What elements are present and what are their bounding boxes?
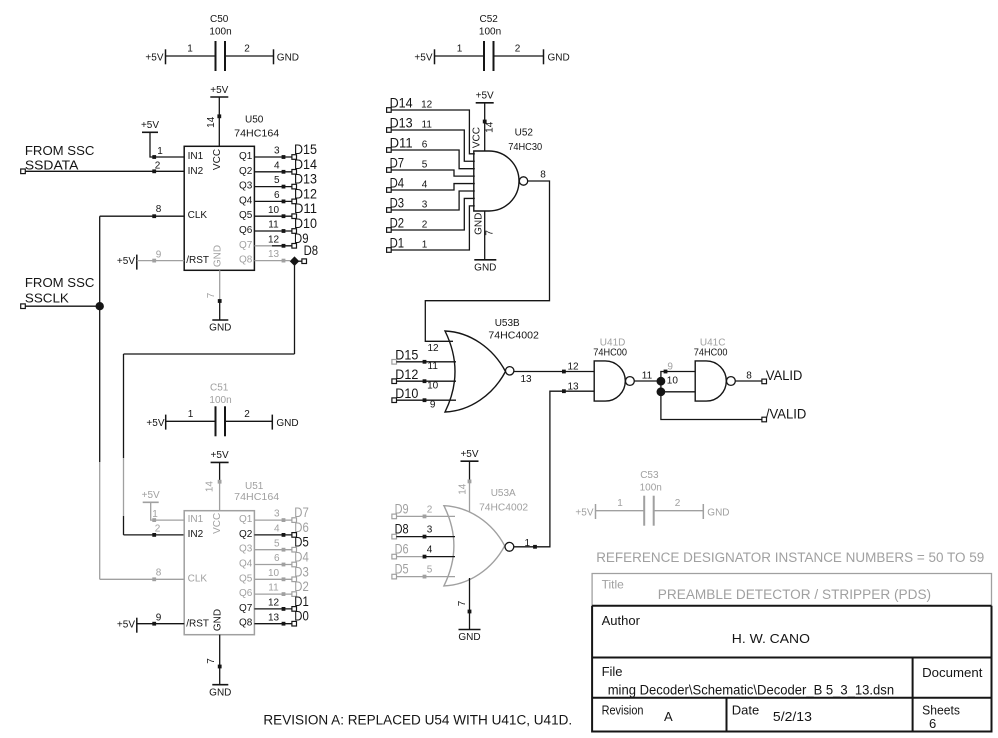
svg-text:U52: U52 bbox=[515, 127, 534, 138]
svg-text:2: 2 bbox=[155, 524, 161, 535]
svg-text:H. W. CANO: H. W. CANO bbox=[732, 631, 810, 646]
svg-text:D14: D14 bbox=[390, 96, 413, 111]
node D7 bbox=[292, 505, 309, 522]
node D6 bbox=[292, 520, 309, 537]
svg-text:2: 2 bbox=[515, 44, 521, 55]
power +5V for U51 pin 9 /RST bbox=[117, 618, 137, 633]
wire junction to U41C pin 9 bbox=[661, 361, 695, 392]
junction SSCLK rail bbox=[96, 302, 104, 310]
wire +5V to IN1 pin 1 of U50 bbox=[150, 132, 184, 159]
power +5V for U50 pin 1 bbox=[141, 120, 159, 132]
svg-text:9: 9 bbox=[156, 613, 162, 624]
svg-text:Document: Document bbox=[922, 665, 983, 680]
wire Q2 of U51 to node D6 bbox=[254, 524, 292, 537]
svg-text:FROM SSC: FROM SSC bbox=[25, 275, 95, 290]
output bubble of U41D bbox=[626, 377, 635, 386]
svg-text:74HC30: 74HC30 bbox=[508, 142, 542, 153]
svg-text:IN1: IN1 bbox=[188, 151, 204, 162]
wire D3 to pin 3 of U52 bbox=[391, 191, 475, 211]
wire Q5 of U50 to node D11 bbox=[254, 205, 292, 218]
wire D15 to pin 11 of U53B bbox=[396, 360, 456, 372]
node D14 bbox=[292, 157, 318, 174]
svg-text:4: 4 bbox=[274, 160, 280, 171]
node D11 bbox=[387, 136, 413, 153]
wire rail to CLK pin 8 of U51 bbox=[100, 567, 185, 581]
svg-text:10: 10 bbox=[667, 375, 679, 386]
svg-text:4: 4 bbox=[422, 180, 428, 191]
pin number 2 of U51 bbox=[155, 524, 161, 535]
node D3 bbox=[387, 196, 405, 213]
node D8 at U53A bbox=[392, 522, 409, 539]
node D2 bbox=[387, 216, 405, 233]
node VALID bbox=[762, 368, 803, 384]
svg-text:8: 8 bbox=[156, 567, 162, 578]
svg-text:1: 1 bbox=[157, 146, 163, 157]
junction D8 bbox=[290, 256, 300, 266]
wire Q4 of U51 to node D4 bbox=[254, 553, 292, 566]
svg-text:Q6: Q6 bbox=[239, 225, 253, 236]
svg-text:Q7: Q7 bbox=[239, 603, 253, 614]
svg-text:9: 9 bbox=[156, 249, 162, 260]
svg-text:12: 12 bbox=[427, 343, 439, 354]
svg-text:D12: D12 bbox=[294, 186, 317, 201]
svg-text:13: 13 bbox=[521, 374, 533, 385]
wire D5 to pin 5 of U53A bbox=[396, 565, 455, 579]
svg-text:74HC164: 74HC164 bbox=[234, 492, 279, 503]
svg-text:12: 12 bbox=[567, 361, 579, 372]
node D5 bbox=[292, 535, 309, 552]
svg-text:D5: D5 bbox=[294, 535, 309, 550]
svg-text:4: 4 bbox=[274, 524, 280, 535]
svg-text:D11: D11 bbox=[294, 201, 317, 216]
svg-text:100n: 100n bbox=[209, 395, 231, 406]
output bubble of U52 bbox=[519, 177, 527, 185]
svg-text:C50: C50 bbox=[210, 14, 229, 25]
node D0 bbox=[292, 609, 309, 626]
wire D12 to pin 10 of U53B bbox=[396, 379, 456, 391]
svg-text:U51: U51 bbox=[245, 481, 264, 492]
svg-text:8: 8 bbox=[156, 204, 162, 215]
node D15 at U53B bbox=[392, 348, 418, 365]
wire Q3 of U51 to node D5 bbox=[254, 538, 292, 551]
svg-text:13: 13 bbox=[268, 612, 280, 623]
wire U52 output pin 8 to U53B pin 12 bbox=[425, 170, 549, 355]
svg-text:D2: D2 bbox=[294, 579, 309, 594]
svg-text:11: 11 bbox=[268, 583, 279, 594]
svg-text:+5V: +5V bbox=[142, 490, 160, 501]
svg-text:10: 10 bbox=[268, 568, 280, 579]
svg-text:D4: D4 bbox=[390, 176, 405, 191]
svg-text:5: 5 bbox=[427, 565, 433, 576]
svg-text:1: 1 bbox=[187, 44, 193, 55]
svg-text:11: 11 bbox=[268, 220, 279, 231]
wire +5V to /RST pin 9 of U51 bbox=[137, 613, 184, 626]
node D5 at U53A bbox=[392, 562, 409, 579]
svg-text:1: 1 bbox=[457, 44, 463, 55]
svg-text:D8: D8 bbox=[304, 243, 319, 258]
svg-text:GND: GND bbox=[276, 418, 298, 429]
svg-text:5: 5 bbox=[274, 538, 280, 549]
note reference designator instance numbers bbox=[596, 550, 984, 565]
gate U41C 74HC00 body bbox=[694, 337, 728, 401]
wire SSDATA to IN2 pin 2 of U50 bbox=[25, 161, 184, 174]
svg-text:Sheets: Sheets bbox=[922, 703, 960, 718]
svg-text:14: 14 bbox=[206, 116, 217, 128]
node D9 bbox=[292, 231, 309, 248]
title block title row bbox=[602, 578, 932, 603]
power +5V for U50 pin 14 bbox=[210, 85, 228, 117]
wire VCC pin 14 of U53A bbox=[458, 480, 472, 513]
svg-text:C53: C53 bbox=[640, 470, 659, 481]
wire CLK rail vertical bbox=[99, 216, 101, 579]
svg-text:1: 1 bbox=[422, 240, 428, 251]
svg-text:U50: U50 bbox=[245, 115, 264, 126]
svg-text:D4: D4 bbox=[294, 550, 309, 565]
gate U53B 74HC4002 body bbox=[445, 318, 539, 412]
svg-text:D14: D14 bbox=[294, 157, 317, 172]
svg-text:FROM SSC: FROM SSC bbox=[25, 143, 95, 158]
svg-text:IN2: IN2 bbox=[188, 529, 204, 540]
svg-text:Title: Title bbox=[602, 578, 625, 592]
svg-text:2: 2 bbox=[427, 504, 433, 515]
svg-text:12: 12 bbox=[421, 100, 433, 111]
svg-text:74HC00: 74HC00 bbox=[694, 347, 728, 358]
svg-text:Q7: Q7 bbox=[239, 240, 253, 251]
svg-text:2: 2 bbox=[422, 220, 428, 231]
ground for U52 bbox=[474, 260, 496, 274]
output bubble of U53B bbox=[506, 367, 514, 375]
junction U41C pin 9 bbox=[657, 377, 666, 386]
svg-text:VCC: VCC bbox=[212, 513, 223, 534]
wire rail to CLK pin 8 of U50 bbox=[100, 204, 185, 218]
gate U52 74HC30 body bbox=[474, 127, 543, 211]
wire VCC pin 14 of U50 bbox=[217, 114, 221, 146]
svg-text:GND: GND bbox=[209, 323, 231, 334]
wire Q2 of U50 to node D14 bbox=[254, 160, 292, 173]
svg-text:+5V: +5V bbox=[117, 619, 135, 630]
svg-text:3: 3 bbox=[422, 200, 428, 211]
svg-text:+5V: +5V bbox=[414, 53, 432, 64]
svg-text:GND: GND bbox=[277, 53, 299, 64]
svg-text:CLK: CLK bbox=[188, 210, 208, 221]
svg-text:Author: Author bbox=[602, 613, 641, 628]
wire D8 to pin 3 of U53A bbox=[396, 525, 455, 539]
svg-text:13: 13 bbox=[567, 382, 579, 393]
svg-text:D10: D10 bbox=[395, 386, 418, 401]
power +5V for U51 pin 1 bbox=[142, 490, 160, 502]
svg-text:2: 2 bbox=[155, 161, 161, 172]
wire Q8 of U51 to node D0 bbox=[254, 612, 292, 625]
svg-text:2: 2 bbox=[244, 409, 250, 420]
svg-text:3: 3 bbox=[427, 525, 433, 536]
wire Q3 of U50 to node D13 bbox=[254, 175, 292, 188]
wire Q5 of U51 to node D3 bbox=[254, 568, 292, 581]
wire Q8 pin 13 of U50 bbox=[254, 249, 290, 262]
svg-text:D7: D7 bbox=[294, 505, 309, 520]
svg-text:PREAMBLE DETECTOR / STRIPPER (: PREAMBLE DETECTOR / STRIPPER (PDS) bbox=[658, 587, 931, 602]
note revision A bbox=[263, 713, 572, 728]
node D3 bbox=[292, 564, 309, 581]
svg-text:3: 3 bbox=[274, 146, 280, 157]
svg-text:D10: D10 bbox=[294, 216, 317, 231]
svg-text:Q4: Q4 bbox=[239, 195, 253, 206]
svg-text:12: 12 bbox=[268, 598, 280, 609]
node D10 bbox=[292, 216, 317, 233]
svg-text:D13: D13 bbox=[294, 172, 317, 187]
wire Q4 of U50 to node D12 bbox=[254, 190, 292, 203]
svg-text:D3: D3 bbox=[294, 564, 309, 579]
wire GND pin 7 of U51 bbox=[206, 635, 222, 685]
svg-text:4: 4 bbox=[427, 545, 433, 556]
svg-text:13: 13 bbox=[268, 249, 280, 260]
svg-text:5: 5 bbox=[422, 160, 428, 171]
svg-text:Q2: Q2 bbox=[239, 529, 253, 540]
node D7 bbox=[387, 156, 405, 173]
wire +5V to /RST pin 9 of U50 bbox=[137, 249, 184, 262]
svg-text:100n: 100n bbox=[479, 26, 501, 37]
svg-text:Q5: Q5 bbox=[239, 210, 253, 221]
svg-text:6: 6 bbox=[274, 553, 280, 564]
svg-text:D6: D6 bbox=[294, 520, 309, 535]
svg-text:GND: GND bbox=[707, 507, 729, 518]
svg-text:Q8: Q8 bbox=[239, 618, 253, 629]
svg-text:74HC00: 74HC00 bbox=[593, 347, 627, 358]
svg-text:D1: D1 bbox=[294, 594, 309, 609]
svg-text:Date: Date bbox=[732, 703, 759, 718]
power +5V for U51 pin 14 bbox=[211, 450, 229, 482]
svg-text:GND: GND bbox=[474, 262, 496, 273]
svg-text:U53A: U53A bbox=[491, 488, 516, 499]
svg-text:/VALID: /VALID bbox=[766, 406, 807, 421]
node D6 at U53A bbox=[392, 542, 409, 559]
svg-text:REVISION A: REPLACED U54 WITH: REVISION A: REPLACED U54 WITH U41C, U41D… bbox=[263, 713, 572, 728]
power +5V for U52 pin 14 bbox=[476, 91, 494, 122]
svg-text:SSCLK: SSCLK bbox=[25, 290, 69, 305]
svg-text:7: 7 bbox=[484, 230, 495, 236]
svg-text:1: 1 bbox=[152, 509, 158, 520]
node D8 bbox=[295, 243, 319, 264]
title block revision row bbox=[602, 703, 961, 731]
wire junction to /VALID bbox=[661, 392, 762, 420]
node FROM SSC SSDATA bbox=[21, 143, 95, 174]
svg-text:U53B: U53B bbox=[495, 318, 520, 329]
wire VCC pin 14 of U51 bbox=[205, 480, 222, 511]
svg-text:Q1: Q1 bbox=[239, 514, 253, 525]
svg-text:Q1: Q1 bbox=[239, 151, 253, 162]
svg-text:D15: D15 bbox=[294, 142, 317, 157]
svg-text:5: 5 bbox=[274, 175, 280, 186]
capacitor C51 bbox=[146, 383, 298, 437]
node D12 at U53B bbox=[392, 367, 418, 384]
wire Q6 of U50 to node D10 bbox=[254, 220, 292, 233]
svg-text:10: 10 bbox=[268, 205, 280, 216]
svg-text:74HC164: 74HC164 bbox=[234, 128, 279, 139]
node FROM SSC SSCLK bbox=[21, 275, 95, 309]
svg-text:+5V: +5V bbox=[141, 120, 159, 131]
svg-text:2: 2 bbox=[244, 44, 250, 55]
svg-text:+5V: +5V bbox=[117, 256, 135, 267]
svg-text:+5V: +5V bbox=[210, 85, 228, 96]
wire VCC pin 14 of U52 bbox=[472, 120, 496, 151]
power +5V for U50 pin 9 /RST bbox=[117, 255, 137, 270]
svg-text:11: 11 bbox=[642, 370, 653, 381]
svg-text:GND: GND bbox=[213, 245, 224, 267]
svg-text:1: 1 bbox=[188, 409, 194, 420]
gate U41D 74HC00 body bbox=[593, 337, 627, 401]
svg-text:+5V: +5V bbox=[211, 450, 229, 461]
output bubble of U53A bbox=[505, 542, 514, 551]
svg-text:D13: D13 bbox=[390, 116, 413, 131]
wire D7 to pin 5 of U52 bbox=[391, 160, 475, 176]
wire Q7 of U50 to node D9 bbox=[254, 234, 292, 247]
wire D14 to pin 12 of U52 bbox=[391, 100, 475, 154]
ground for U50 bbox=[209, 320, 231, 334]
svg-text:CLK: CLK bbox=[188, 573, 208, 584]
svg-text:1: 1 bbox=[525, 538, 531, 549]
svg-text:Q4: Q4 bbox=[239, 559, 253, 570]
svg-text:+5V: +5V bbox=[575, 507, 593, 518]
svg-text:File: File bbox=[602, 664, 623, 679]
node D12 bbox=[292, 186, 317, 203]
node D2 bbox=[292, 579, 309, 596]
wire D11 to pin 6 of U52 bbox=[391, 140, 475, 169]
wire U53A output pin 1 to U41D pin 13 bbox=[514, 382, 594, 550]
wire D10 to pin 9 of U53B bbox=[396, 398, 456, 410]
wire +5V to IN1 pin 1 of U51 bbox=[151, 502, 185, 522]
svg-text:Q2: Q2 bbox=[239, 166, 253, 177]
svg-text:10: 10 bbox=[427, 381, 439, 392]
svg-text:14: 14 bbox=[205, 481, 216, 493]
pin number 14 of U50 bbox=[206, 116, 217, 128]
svg-text:6: 6 bbox=[274, 190, 280, 201]
svg-text:GND: GND bbox=[473, 213, 484, 235]
output bubble of U41C bbox=[727, 377, 736, 386]
node D13 bbox=[292, 172, 317, 189]
wire junction to U41C pin 10 bbox=[661, 375, 695, 392]
node D15 bbox=[292, 142, 317, 159]
wire GND pin 7 of U50 bbox=[206, 270, 222, 320]
svg-text:12: 12 bbox=[268, 234, 280, 245]
svg-text:+5V: +5V bbox=[476, 91, 494, 102]
capacitor C53 bbox=[575, 470, 729, 526]
wire SSCLK horizontal bbox=[25, 305, 99, 307]
wire D9 to pin 2 of U53A bbox=[396, 504, 455, 518]
svg-text:C51: C51 bbox=[210, 383, 229, 394]
svg-text:D0: D0 bbox=[294, 609, 309, 624]
svg-text:/RST: /RST bbox=[186, 618, 209, 629]
wire net D8 to U51 IN2 bbox=[124, 261, 295, 537]
node D10 at U53B bbox=[392, 386, 418, 403]
svg-text:11: 11 bbox=[422, 120, 433, 131]
svg-text:Q3: Q3 bbox=[239, 544, 253, 555]
svg-text:D15: D15 bbox=[395, 348, 418, 363]
node D1 bbox=[387, 236, 405, 253]
svg-text:8: 8 bbox=[746, 370, 752, 381]
svg-text:Q3: Q3 bbox=[239, 181, 253, 192]
svg-text:GND: GND bbox=[458, 632, 480, 643]
svg-text:6: 6 bbox=[422, 140, 428, 151]
svg-text:Q6: Q6 bbox=[239, 588, 253, 599]
svg-text:9: 9 bbox=[430, 400, 436, 411]
svg-text:Q5: Q5 bbox=[239, 573, 253, 584]
wire U53B output pin 13 to U41D pin 12 bbox=[514, 361, 594, 385]
capacitor C52 bbox=[414, 14, 569, 71]
IC U51 74HC164 body bbox=[184, 481, 279, 635]
svg-text:Q8: Q8 bbox=[239, 255, 253, 266]
svg-text:A: A bbox=[664, 709, 673, 724]
wire U41D output pin 11 bbox=[634, 370, 661, 381]
wire Q1 of U50 to node D15 bbox=[254, 146, 292, 159]
title block frame bbox=[592, 574, 991, 732]
svg-text:/RST: /RST bbox=[186, 255, 209, 266]
svg-text:C52: C52 bbox=[480, 14, 499, 25]
svg-text:1: 1 bbox=[617, 498, 623, 509]
wire D1 to pin 1 of U52 bbox=[391, 206, 475, 251]
svg-text:GND: GND bbox=[213, 609, 224, 631]
svg-text:ming Decoder\Schematic\Decoder: ming Decoder\Schematic\Decoder_B 5_3_13.… bbox=[608, 682, 894, 697]
svg-text:IN1: IN1 bbox=[188, 514, 204, 525]
junction U41C pin 10 bbox=[657, 387, 666, 396]
wire Q7 of U51 to node D1 bbox=[254, 598, 292, 611]
ground for U51 bbox=[209, 685, 231, 699]
svg-text:100n: 100n bbox=[640, 482, 662, 493]
svg-text:SSDATA: SSDATA bbox=[25, 158, 79, 173]
gate U53A 74HC4002 body bbox=[444, 488, 529, 586]
svg-text:2: 2 bbox=[675, 498, 681, 509]
wire D6 to pin 4 of U53A bbox=[396, 545, 455, 559]
svg-text:GND: GND bbox=[548, 53, 570, 64]
wire GND pin 7 of U52 bbox=[473, 211, 495, 260]
wire D13 to pin 11 of U52 bbox=[391, 120, 475, 162]
svg-text:IN2: IN2 bbox=[188, 166, 204, 177]
svg-text:VCC: VCC bbox=[212, 149, 223, 170]
svg-text:11: 11 bbox=[428, 361, 439, 372]
node D11 bbox=[292, 201, 317, 218]
svg-text:74HC4002: 74HC4002 bbox=[488, 331, 539, 342]
svg-text:14: 14 bbox=[484, 121, 495, 133]
node D13 bbox=[387, 116, 413, 133]
svg-text:+5V: +5V bbox=[146, 418, 164, 429]
svg-text:14: 14 bbox=[458, 483, 469, 495]
svg-text:REFERENCE DESIGNATOR INSTANCE: REFERENCE DESIGNATOR INSTANCE NUMBERS = … bbox=[596, 550, 984, 565]
power +5V for U53A pin 14 bbox=[460, 449, 478, 481]
svg-text:Revision: Revision bbox=[602, 703, 644, 718]
svg-text:3: 3 bbox=[274, 509, 280, 520]
node D4 bbox=[292, 550, 309, 567]
svg-text:74HC4002: 74HC4002 bbox=[479, 502, 528, 513]
svg-text:5/2/13: 5/2/13 bbox=[773, 709, 812, 724]
svg-text:7: 7 bbox=[206, 292, 217, 298]
svg-text:VALID: VALID bbox=[766, 368, 803, 383]
IC U50 74HC164 body bbox=[184, 115, 279, 271]
wire D2 to pin 2 of U52 bbox=[391, 198, 475, 230]
wire D4 to pin 4 of U52 bbox=[391, 180, 475, 191]
node D9 at U53A bbox=[392, 502, 409, 519]
title block author row bbox=[602, 613, 810, 646]
svg-text:7: 7 bbox=[457, 600, 468, 606]
svg-text:7: 7 bbox=[206, 658, 217, 664]
svg-text:GND: GND bbox=[209, 687, 231, 698]
node D1 bbox=[292, 594, 309, 611]
svg-text:D11: D11 bbox=[390, 136, 413, 151]
svg-text:VCC: VCC bbox=[472, 127, 483, 148]
svg-text:8: 8 bbox=[540, 170, 546, 181]
node /VALID bbox=[762, 406, 807, 421]
svg-text:D12: D12 bbox=[395, 367, 418, 382]
svg-text:6: 6 bbox=[929, 716, 936, 731]
svg-text:+5V: +5V bbox=[145, 53, 163, 64]
wire U41C output pin 8 to VALID bbox=[735, 370, 762, 381]
